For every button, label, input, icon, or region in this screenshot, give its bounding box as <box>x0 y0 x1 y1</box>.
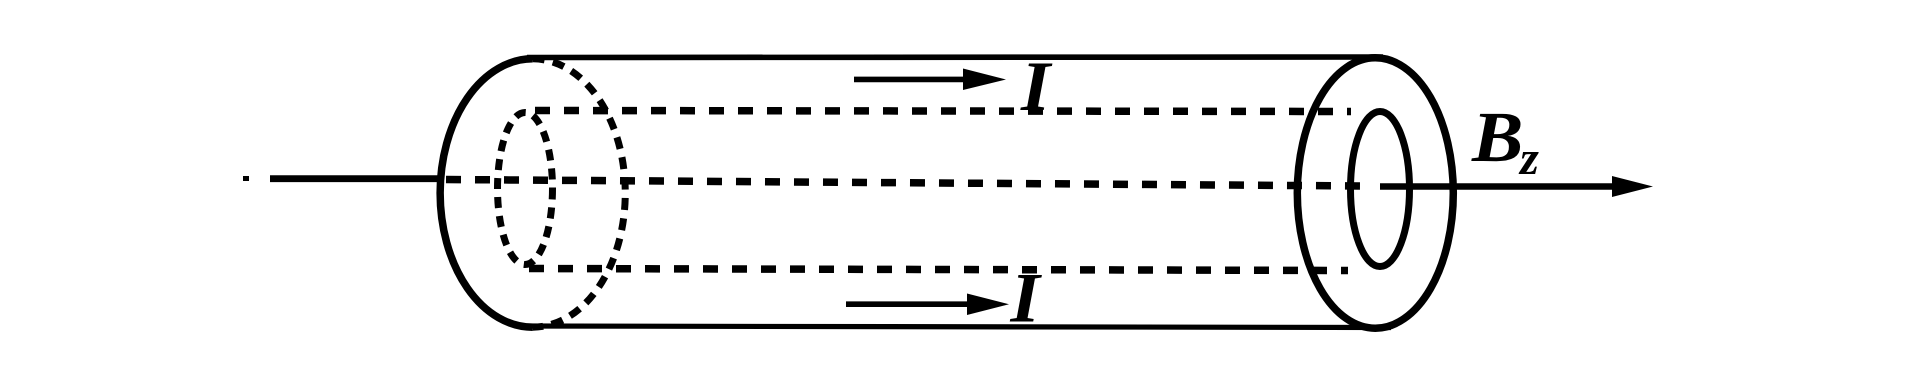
svg-text:I: I <box>1020 48 1053 126</box>
node right end outer ellipse <box>1297 58 1453 328</box>
wire inner bore bottom dashed line <box>529 269 1348 271</box>
wire bottom current arrow shaft <box>846 301 972 307</box>
node left inner bore dashed ellipse <box>498 113 553 265</box>
node left end cap outer ellipse dashed right half <box>533 59 626 327</box>
node top current arrowhead <box>963 69 1006 91</box>
node Bz field arrowhead <box>1612 176 1653 197</box>
svg-text:z: z <box>1518 132 1539 185</box>
wire Bz field arrow shaft <box>1380 183 1618 190</box>
wire cylinder bottom outer line <box>517 326 1391 328</box>
wire top current arrow shaft <box>854 77 968 83</box>
svg-text:B: B <box>1471 97 1523 177</box>
node right end inner ellipse <box>1351 112 1410 267</box>
wire left axis lead-in dot <box>243 176 249 181</box>
wire cylinder top outer line <box>527 54 1383 60</box>
node left end cap outer ellipse solid left half <box>440 59 533 327</box>
wire inner bore top dashed line <box>535 111 1351 112</box>
wire center axis dashed line <box>446 180 1364 187</box>
svg-text:I: I <box>1009 260 1042 338</box>
node bottom current arrowhead <box>967 294 1009 316</box>
wire left axis solid segment <box>270 175 440 182</box>
